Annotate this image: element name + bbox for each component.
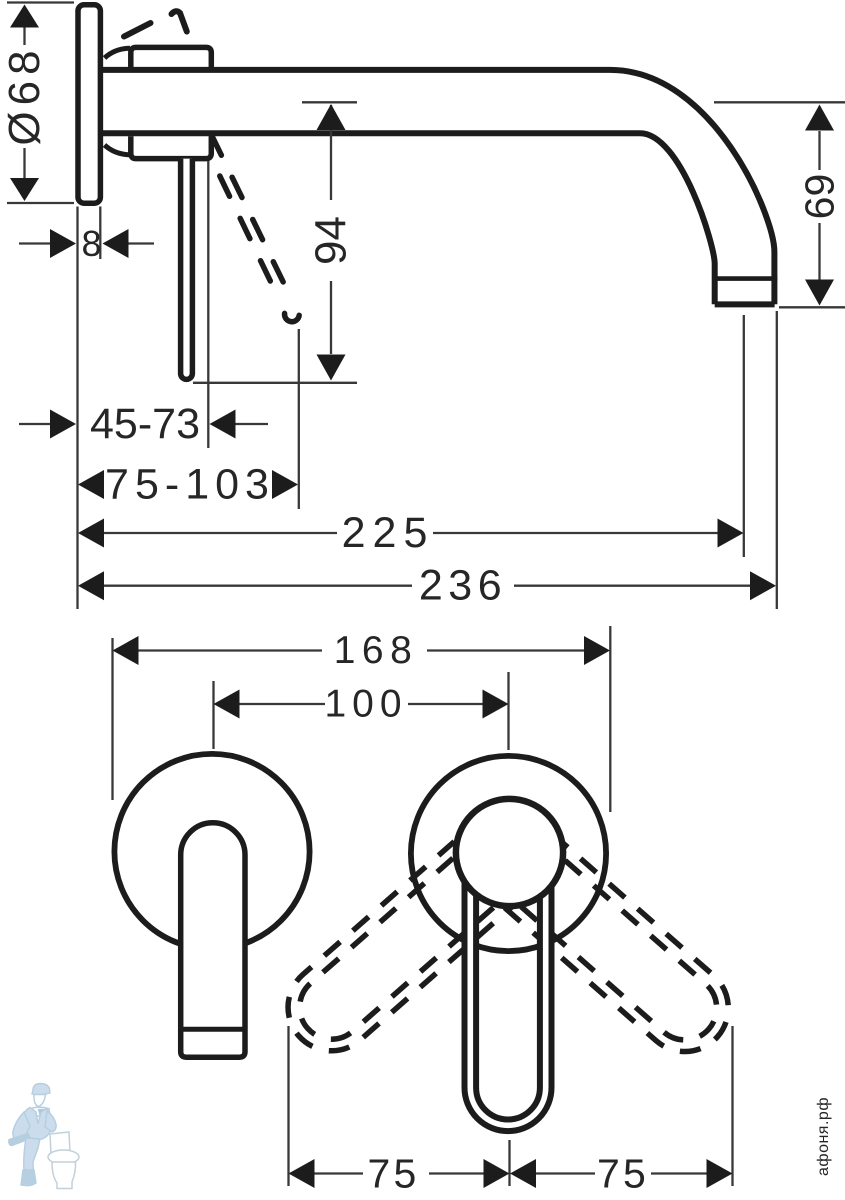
right 75 extension line: [731, 1026, 733, 1186]
spout top outline: [103, 70, 774, 304]
wall extension line: [76, 207, 78, 610]
aerator band line: [712, 276, 777, 281]
svg-text:75-103: 75-103: [105, 461, 275, 509]
left escutcheon circle: [114, 754, 309, 949]
top hub collar: [131, 47, 212, 70]
dashed handle raised position mark B: [172, 11, 187, 31]
dimension 94: ticks, line, arrows, label: [193, 102, 357, 383]
dimension 225: lines, arrows, label: [78, 509, 744, 557]
left 75 extension line: [287, 1026, 289, 1186]
svg-text:168: 168: [334, 629, 419, 672]
handle pivot extension line: [207, 161, 209, 448]
svg-text:75: 75: [367, 1151, 419, 1197]
dashed loop handle rotated left: [270, 842, 512, 1069]
svg-text:афоня.рф: афоня.рф: [815, 1097, 832, 1176]
svg-text:75: 75: [597, 1151, 649, 1197]
dashed handle end extension line: [298, 329, 300, 509]
solid loop handle bar fill: [465, 866, 552, 1131]
svg-text:8: 8: [81, 223, 101, 264]
left escutcheon edge extension line: [111, 638, 113, 800]
dashed handle raised position mark A: [124, 23, 151, 37]
solid loop handle inner outline: [476, 896, 540, 1120]
svg-text:236: 236: [419, 562, 507, 610]
svg-text:Ø68: Ø68: [0, 44, 49, 145]
dimension 45-73: lines, arrows, label: [19, 400, 268, 448]
plate front extension line: [99, 207, 101, 260]
spout inner edge extension line: [743, 315, 745, 557]
top collar shoulder arc: [105, 48, 131, 58]
dashed handle forward position, right outline: [212, 135, 291, 297]
dashed handle end curl: [285, 313, 300, 321]
bottom collar shoulder arc: [105, 145, 131, 155]
wall escutcheon plate (side view): [78, 5, 100, 203]
dimension 75 right: lines, arrows, label: [510, 1151, 733, 1197]
svg-text:45-73: 45-73: [90, 400, 200, 448]
left centre extension line: [212, 681, 214, 749]
dimension 100: lines, arrows, label: [214, 683, 509, 726]
right centre extension line: [507, 672, 509, 750]
vertical site watermark right edge: [815, 1097, 832, 1176]
dimension 75 left: lines, arrows, label: [289, 1151, 510, 1197]
left handle end cap line: [181, 1027, 245, 1032]
dimension 75-103: arrows, label: [78, 461, 298, 509]
right escutcheon circle: [411, 756, 606, 951]
spout outer edge extension line: [776, 311, 778, 609]
svg-text:94: 94: [307, 216, 356, 265]
dimension 168: lines, arrows, label: [113, 629, 611, 672]
bottom hub collar: [131, 136, 212, 158]
centre 75 extension line: [508, 1140, 510, 1186]
right escutcheon edge extension line: [609, 626, 611, 812]
lever handle rod, solid down position: [181, 159, 193, 380]
dashed handle forward position, left outline: [220, 176, 278, 296]
svg-text:100: 100: [324, 683, 407, 726]
spout outlet end cap: [715, 301, 775, 307]
dimension 236: lines, arrows, label: [78, 562, 776, 610]
svg-text:69: 69: [797, 174, 843, 220]
dimension 8: lines, arrows, label: [19, 223, 154, 264]
dimension 69: ticks, line, arrows, label: [714, 102, 845, 307]
left handle front view: [181, 823, 245, 1057]
dimension dia68: ticks, line, arrows, label: [0, 3, 74, 204]
dashed loop handle rotated right: [505, 842, 747, 1069]
plumber logo watermark bottom-left: [9, 1084, 79, 1189]
hub circle: [456, 799, 563, 906]
svg-text:225: 225: [342, 509, 435, 557]
spout bottom outline: [103, 133, 715, 304]
solid loop handle outer outline: [465, 881, 552, 1131]
